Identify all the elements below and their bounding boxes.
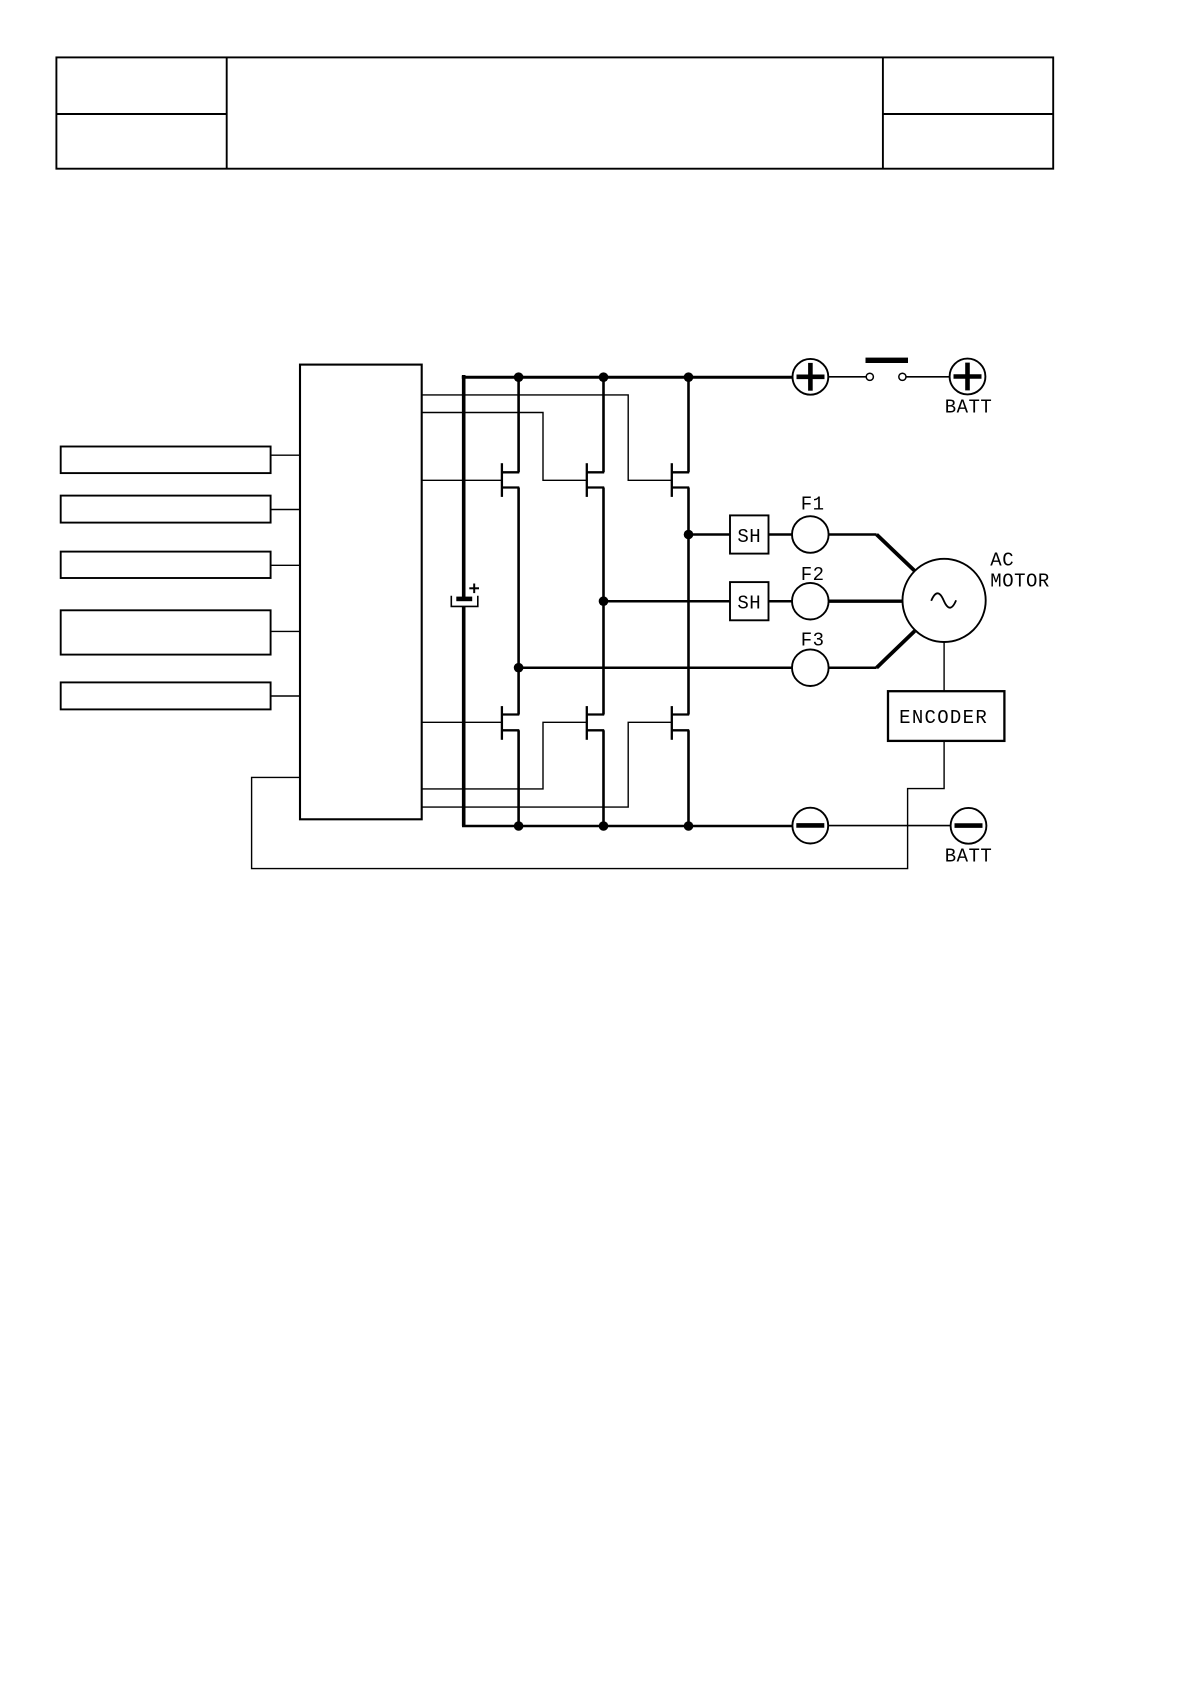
wire: phase 2 tap to SH2 (604, 600, 731, 603)
wire: motor lead U diagonal (877, 535, 915, 571)
transistor Q3 (top, phase 3) (672, 463, 689, 497)
svg-text:SH: SH (737, 593, 761, 615)
transistor Q1 (top, phase 1) (502, 463, 519, 497)
wire: input box 3 to controller (271, 564, 300, 566)
fuse F3 (792, 649, 829, 686)
battery terminal circle - (battery side) (951, 808, 987, 844)
transistor Q4 (bottom, phase 1) (502, 706, 519, 740)
shunt SH2 (730, 582, 769, 620)
junction: top bus / phase column 3 (684, 372, 694, 382)
svg-text:BATT: BATT (945, 396, 993, 418)
svg-text:F3: F3 (801, 629, 825, 651)
wire: motor lead W diagonal (877, 631, 915, 668)
junction: top bus / phase column 1 (514, 372, 524, 382)
battery terminal circle - (inverter side) (792, 808, 828, 844)
wire: F2 to motor lead V (829, 600, 903, 603)
junction: phase 3 tap to F1 (684, 530, 694, 540)
wire: F3 to motor lead W (829, 666, 877, 669)
wire: motor to encoder (943, 642, 945, 691)
junction: bottom bus / phase column 3 (684, 821, 694, 831)
wire: + terminal to key switch (828, 376, 866, 378)
junction: phase 1 tap to F3 (514, 663, 524, 673)
svg-text:ENCODER: ENCODER (899, 707, 988, 729)
wire: SH1 to F1 (769, 533, 793, 536)
wire: controller to Q2 gate (422, 413, 587, 481)
wire: F1 to motor lead U (829, 533, 877, 536)
svg-text:SH: SH (737, 526, 761, 548)
battery terminal circle + (battery side) (950, 359, 986, 395)
capacitor C1 (451, 584, 479, 607)
wire: B+ rail (battery positive vertical) (462, 375, 466, 826)
wire: controller to Q6 gate (422, 722, 672, 807)
wire: controller to Q3 gate (422, 395, 672, 480)
controller block U1 (300, 365, 422, 820)
title block table (56, 57, 1053, 168)
svg-text:AC: AC (990, 549, 1014, 571)
wire: input box 5 to controller (271, 695, 300, 697)
fuse F2 (792, 583, 829, 620)
svg-text:F2: F2 (801, 564, 825, 586)
fuse F1 (792, 516, 829, 553)
motor M1 (AC MOTOR) (903, 559, 986, 642)
wire: controller to Q4 gate (422, 721, 502, 723)
wire: input box 1 to controller (271, 454, 300, 456)
transistor Q5 (bottom, phase 2) (587, 706, 604, 740)
wire: B+ top bus (462, 376, 793, 379)
wire: B- bottom bus (462, 825, 792, 828)
input box 5 (61, 682, 271, 709)
input box 2 (61, 496, 271, 523)
wire: phase column 3 (687, 377, 690, 826)
shunt SH1 (730, 515, 769, 553)
junction: bottom bus / phase column 2 (599, 821, 609, 831)
transistor Q2 (top, phase 2) (587, 463, 604, 497)
battery terminal circle + (inverter side) (793, 359, 829, 395)
wire: encoder feedback to controller (252, 741, 945, 869)
junction: top bus / phase column 2 (599, 372, 609, 382)
wire: input box 2 to controller (271, 509, 300, 511)
wire: SH2 to F2 (769, 600, 793, 603)
input box 1 (61, 447, 271, 474)
wire: - terminal to battery - (828, 825, 950, 827)
wire: key switch to battery + (906, 376, 950, 378)
wire: phase 1 tap to F3 (519, 666, 792, 669)
junction: phase 2 tap to F2 (599, 596, 609, 606)
wire: controller to Q5 gate (422, 722, 587, 789)
key switch S1 (866, 358, 909, 381)
junction: bottom bus / phase column 1 (514, 821, 524, 831)
svg-text:F1: F1 (801, 494, 825, 516)
wire: input box 4 to controller (271, 630, 300, 632)
encoder (888, 691, 1004, 741)
wire: phase 3 tap to SH1 (689, 533, 731, 536)
wire: controller to Q1 gate (422, 479, 502, 481)
svg-text:BATT: BATT (945, 846, 993, 868)
input box 3 (61, 552, 271, 578)
svg-text:MOTOR: MOTOR (990, 571, 1050, 593)
transistor Q6 (bottom, phase 3) (672, 706, 689, 740)
input box 4 (61, 610, 271, 654)
wire: phase column 2 (602, 377, 605, 826)
wire: phase column 1 (517, 377, 520, 826)
